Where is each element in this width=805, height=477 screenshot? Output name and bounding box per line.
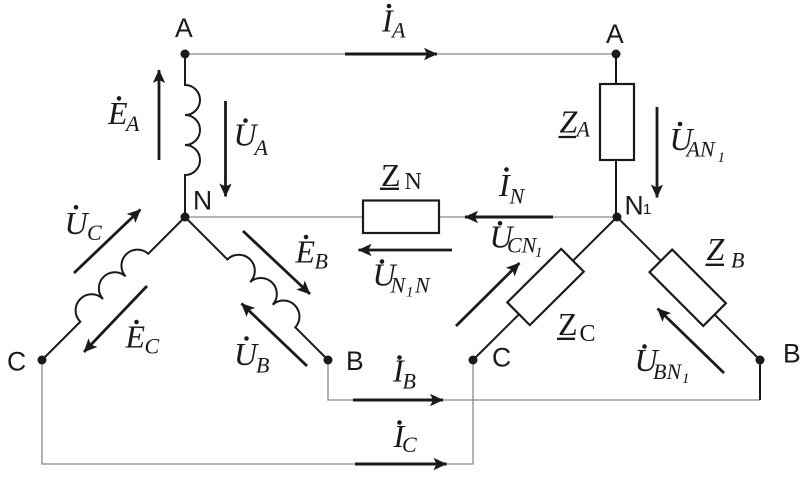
emf arrow E_B [243,231,310,294]
label U_AN1 [670,121,726,166]
voltage arrow U_AN1 [656,107,659,198]
label U_B [234,336,269,378]
svg-text:C: C [7,347,26,377]
wire: line B (source B down, across to load B drop) [328,360,760,400]
svg-text:A: A [606,19,624,49]
svg-text:C: C [492,343,511,373]
svg-text:C: C [580,321,596,347]
svg-text:B: B [315,249,328,274]
node load A [612,50,621,59]
source winding phase B (coil N to B) [185,217,328,360]
current arrow I_B [353,399,443,402]
emf arrow E_A [158,70,161,160]
label Z_N [380,157,422,195]
svg-text:Z: Z [707,231,726,267]
node source A [181,50,190,59]
svg-text:B: B [731,248,744,273]
wire: load A branch top [615,54,617,84]
svg-text:1: 1 [682,371,690,387]
svg-text:B: B [346,346,364,376]
svg-text:A: A [390,18,406,43]
svg-text:BN: BN [653,359,682,384]
node source C [38,356,47,365]
svg-text:N: N [405,169,422,195]
node N1 [613,213,622,222]
label I_C [393,418,418,457]
wire: neutral N to Z_N [185,216,363,218]
emf arrow E_C [84,286,147,352]
current arrow I_C [355,463,447,466]
label E_B [295,234,328,274]
svg-text:A: A [575,117,591,142]
label Z_C [557,306,596,347]
voltage arrow U_CN1 [456,263,520,326]
source winding phase A (coil) [185,54,200,217]
label U_A [234,117,269,161]
svg-text:A: A [124,111,140,136]
svg-text:N: N [390,273,407,298]
svg-text:C: C [145,334,160,359]
wire: line C (source C down, across, up to load C) [42,360,473,464]
voltage arrow U_N1N [359,249,453,252]
svg-text:N: N [509,184,526,209]
wire: load leg N1 to B [617,217,760,360]
svg-text:1: 1 [406,285,414,301]
svg-text:1: 1 [535,245,543,261]
current arrow I_A [345,53,437,56]
label U_N1N [373,257,432,301]
wire: load A branch bottom to N1 [615,160,617,217]
svg-text:E: E [125,319,146,355]
svg-text:N: N [414,273,431,298]
node source B [324,356,333,365]
svg-text:A: A [175,13,193,43]
impedance Z_N box [363,201,439,234]
svg-text:A: A [253,135,269,160]
wire: Z_N to N1 [439,216,617,218]
voltage arrow U_B [242,304,308,367]
svg-text:CN: CN [507,233,538,258]
node N [181,213,190,222]
svg-text:N: N [193,186,212,216]
svg-text:Z: Z [558,306,578,342]
impedance Z_C box [507,249,583,325]
svg-text:B: B [256,353,269,378]
label Z_A [559,104,591,142]
label I_A [381,3,406,43]
svg-text:N: N [625,191,644,221]
svg-text:E: E [107,95,128,131]
label I_N [498,167,526,209]
voltage arrow U_A [224,101,227,197]
impedance Z_A box [600,84,634,160]
source winding phase C (coil N to C) [42,217,185,360]
label E_C [125,319,160,359]
label U_C [65,205,103,245]
svg-text:1: 1 [718,150,726,166]
svg-text:1: 1 [643,201,651,218]
node load B [756,356,765,365]
svg-text:AN: AN [685,137,716,162]
svg-text:C: C [87,220,102,245]
svg-text:Z: Z [381,157,401,193]
svg-text:B: B [783,339,801,369]
svg-text:C: C [402,432,417,457]
label I_B [392,353,416,394]
label U_BN1 [635,342,690,387]
current arrow I_N [465,216,553,219]
label E_A [107,95,140,136]
voltage arrow U_BN1 [658,309,725,374]
node load C [469,356,478,365]
svg-text:B: B [403,369,416,394]
svg-text:U: U [65,205,90,241]
wire: line A from source A to load A [185,53,616,55]
wire: load B drop (black) [759,360,761,400]
voltage arrow U_C [74,210,141,274]
impedance Z_B box [650,250,726,326]
label U_CN1 [490,219,543,262]
wire: load leg N1 to C [473,217,617,360]
label Z_B [706,231,745,273]
